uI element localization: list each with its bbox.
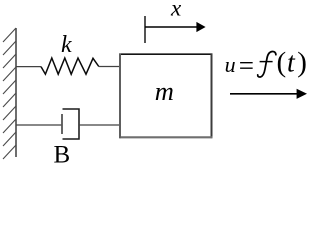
wall hatch 8 [3,119,16,133]
svg-text:m: m [155,76,174,106]
wall hatch 6 [3,93,16,107]
force arrow u [230,93,298,95]
wall hatch 7 [3,106,16,120]
wall hatch 10 [3,145,16,159]
wire spring-right rod [99,66,120,68]
wall hatch 4 [3,67,16,81]
svg-text:B: B [54,142,71,168]
damper B cylinder [63,109,80,139]
svg-text:k: k [61,32,72,58]
wire damper-left rod [16,124,62,126]
mass m block [119,53,212,138]
label u = f(t) [225,47,307,81]
wall hatch 1 [3,28,16,42]
x-axis arrow [145,26,198,28]
wall hatch 5 [3,80,16,94]
svg-text:(: ( [277,47,287,79]
svg-text:x: x [170,0,182,20]
wall hatch 9 [3,132,16,146]
x-axis tick [144,16,146,43]
wire spring-left rod [16,66,41,68]
svg-text:t: t [287,47,296,78]
svg-text:): ) [297,47,307,79]
wall hatch 2 [3,41,16,55]
wall hatch 3 [3,54,16,68]
damper B piston [61,114,63,134]
wire damper-right rod [79,124,119,126]
svg-text:u: u [225,52,236,77]
spring k zigzag [41,58,99,74]
wall [15,28,17,157]
svg-text:=: = [239,51,254,81]
